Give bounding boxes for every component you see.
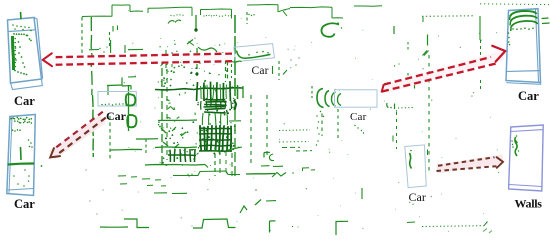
marks below M2 xyxy=(321,114,323,137)
tick x394 top xyxy=(393,26,395,34)
scribble marks over arrow zone xyxy=(187,40,193,45)
cluster horizontal y89 xyxy=(155,88,243,90)
left verticals x110 xyxy=(109,32,111,48)
zoom box top-left Car xyxy=(8,18,42,84)
tick x362 xyxy=(361,188,363,199)
bottom step shape xyxy=(124,219,149,228)
green dashes right of top-right box xyxy=(542,17,549,20)
random stray specks xyxy=(440,156,443,159)
vertical dashed x279 below M1 xyxy=(278,61,280,80)
bottom corner x269 xyxy=(269,221,271,233)
pink halo arrow A2 xyxy=(52,119,103,156)
marks x247 top xyxy=(246,12,248,24)
vertical dashed x267 xyxy=(266,95,268,158)
small dashes x407 xyxy=(407,221,415,224)
bottom y166 dashes xyxy=(261,165,270,167)
map top wall segment 5 xyxy=(290,6,332,9)
marks near x302-315 xyxy=(303,167,309,169)
svg-text:Car: Car xyxy=(409,190,426,204)
map top dotted wall right xyxy=(422,15,474,17)
verticals near M2 arcs xyxy=(311,86,313,98)
cluster connector strokes xyxy=(200,101,202,110)
small arcs x168-180 xyxy=(168,21,175,24)
cluster horizontal y120 xyxy=(158,119,197,122)
map top wall thin segment xyxy=(354,5,382,8)
green streak in walls box xyxy=(515,137,517,156)
svg-text:Car: Car xyxy=(106,109,127,123)
green D blob D2 xyxy=(127,115,136,127)
vertical ticks crossing arrow xyxy=(165,50,167,70)
dotted horizontals xyxy=(279,129,310,132)
svg-text:Car: Car xyxy=(252,65,269,77)
green C points in top-left box xyxy=(12,24,14,26)
bottom dotted line right xyxy=(422,225,484,228)
cluster dense blob lower xyxy=(200,125,201,151)
arrow A2 diagonal to bottom-left xyxy=(55,112,103,149)
vertical dashed x251 xyxy=(250,95,252,165)
arrow A4 horizontal right dashed xyxy=(438,157,495,166)
bottom bump shape xyxy=(193,219,236,228)
svg-text:Car: Car xyxy=(14,94,35,108)
zoom box bottom-left Car xyxy=(7,115,36,196)
bracket with curl xyxy=(263,153,265,158)
arrow A3 diagonal to top-right xyxy=(384,57,491,85)
small bracket x427 xyxy=(427,35,429,46)
h dashes y147 y151 xyxy=(282,146,300,148)
cluster extra scribble strokes xyxy=(161,64,164,67)
green tick above top-left box xyxy=(20,12,23,19)
cluster blob bottom-left xyxy=(169,150,171,162)
map top wall segment 3 xyxy=(201,8,232,11)
bracket x408-415 xyxy=(409,82,415,84)
green G hook top xyxy=(321,23,339,37)
bottom bump line y171-175 xyxy=(173,171,240,176)
pink halo arrow A4 xyxy=(437,159,503,169)
green D blob D1 xyxy=(126,94,136,105)
stray dots bottom-left xyxy=(89,200,90,201)
cluster vertical x225 xyxy=(225,60,227,82)
pink halo arrow A1 xyxy=(50,57,232,61)
bottom wall y227 left xyxy=(100,226,128,228)
cluster horizontal y165 xyxy=(145,164,205,167)
green dots along M3 bottom xyxy=(101,104,102,105)
map car box M2 xyxy=(335,90,378,107)
svg-text:Car: Car xyxy=(350,111,367,123)
cluster noise dots xyxy=(158,81,159,82)
marks right of M2 xyxy=(387,103,389,108)
zoom box top-right Car xyxy=(506,9,541,83)
cluster bottom verticals xyxy=(214,147,216,176)
map car box M4 xyxy=(405,145,426,188)
map car box M1 xyxy=(234,44,275,62)
dots row under top wall xyxy=(170,15,171,16)
vertical line through D blobs xyxy=(128,85,130,131)
long vertical line x235 xyxy=(234,15,236,100)
marks x422-428 xyxy=(423,51,428,56)
bottom h lines y150 xyxy=(110,148,142,151)
horizontal y139 with tick xyxy=(136,138,158,140)
green points in bottom-left box xyxy=(10,118,12,120)
svg-text:Car: Car xyxy=(14,197,35,211)
vertical x196 with blob xyxy=(195,15,197,31)
pink halo arrow A3 xyxy=(385,55,503,89)
bottom scribbles x239-276 xyxy=(240,206,247,213)
green streak inside M4 xyxy=(410,153,412,169)
green tick right of M1 label xyxy=(272,66,274,74)
cluster diag marks left xyxy=(161,128,166,133)
cluster horizontal y147 xyxy=(155,146,197,149)
map top wall left section xyxy=(82,15,112,17)
green arcs left of box M2 xyxy=(317,89,324,108)
bracket above box M3 xyxy=(122,85,131,88)
green arcs in top-right box xyxy=(510,11,537,17)
map top wall segment 2 xyxy=(148,7,192,8)
map left vertical line x91 xyxy=(91,17,92,95)
map top dotted row far right xyxy=(480,3,549,6)
left small marks xyxy=(112,26,114,32)
scattered dashes lower left xyxy=(118,175,126,177)
map top wall segment 4 xyxy=(247,4,278,7)
svg-text:Car: Car xyxy=(518,89,539,103)
green curve inside M1 xyxy=(237,51,271,59)
svg-text:Walls: Walls xyxy=(515,197,543,211)
cluster crosshatch blob upper xyxy=(203,99,225,101)
bottom corner x336 xyxy=(335,222,337,236)
vertical dashed x396 xyxy=(396,112,398,149)
dashes y193 xyxy=(154,192,167,194)
arrow A1 left horizontal dashed xyxy=(54,54,232,58)
map left boundary dashed xyxy=(81,17,83,61)
cluster grid of column strokes xyxy=(196,82,199,101)
tiny marks below-left of walls box xyxy=(483,229,487,232)
cluster left outline verticals xyxy=(161,57,163,165)
long vertical dashed x429 xyxy=(428,55,430,175)
vertical dashed x480 pieces xyxy=(480,40,482,55)
map car box M3 xyxy=(98,92,136,107)
zoom box bottom-right Walls xyxy=(509,125,544,191)
bottom h line y174 with scribble xyxy=(246,173,275,176)
